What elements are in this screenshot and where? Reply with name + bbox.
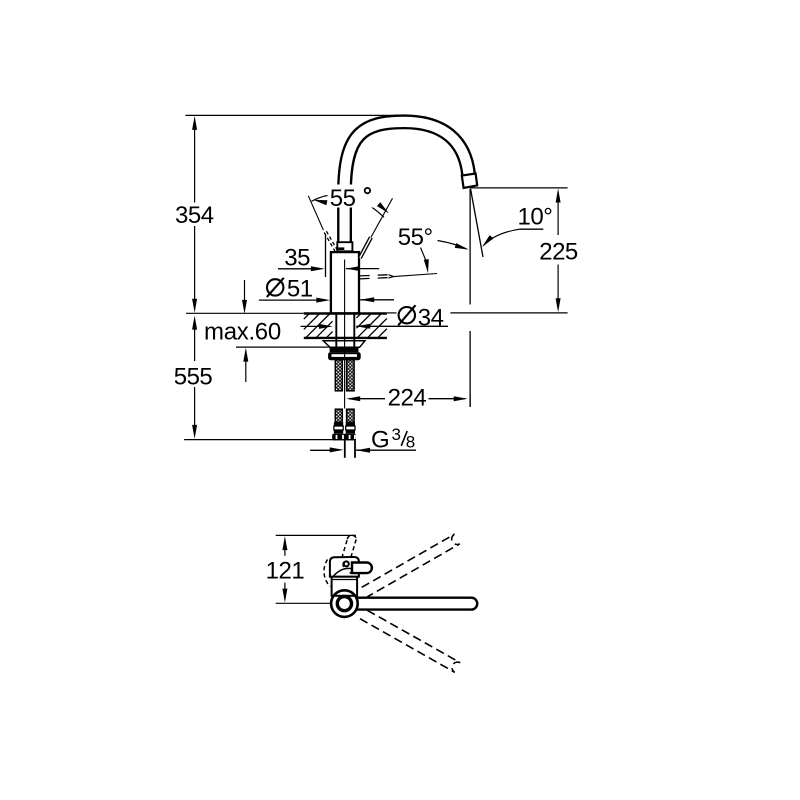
555 bottom reference line [184, 439, 356, 441]
threaded shank through countertop [336, 314, 354, 349]
spout tube [345, 122, 469, 252]
55 degree arc (lever swing upper) [312, 194, 390, 217]
dimension diameter 34 [301, 304, 448, 331]
225 top reference line [470, 187, 567, 189]
lever handle alternate left position (dashed) [324, 231, 337, 251]
svg-text:max.60: max.60 [204, 319, 281, 346]
threaded studs segment A [335, 360, 354, 391]
svg-text:3: 3 [392, 425, 401, 444]
svg-text:354: 354 [175, 202, 214, 229]
countertop reference line right segment [450, 312, 567, 314]
lever alternate position up (dashed) [342, 535, 357, 558]
countertop reference line middle segment [387, 312, 397, 314]
svg-text:224: 224 [388, 385, 427, 412]
label 55 degrees (upper) [328, 185, 375, 213]
spout swivel position upper (dashed) [360, 534, 460, 598]
top view: 121 bottom reference line [276, 602, 331, 604]
dimension 225 [539, 189, 578, 313]
top view: 121 top reference line [276, 534, 356, 536]
spout swivel position lower (dashed) [360, 609, 460, 672]
outlet axis vertical line lower [469, 331, 471, 407]
lever cap (top view) [330, 557, 359, 577]
extension line (lever front plane) [325, 236, 327, 278]
spout outlet aerator [462, 174, 477, 188]
spout (top view, solid) [352, 598, 477, 610]
svg-text:555: 555 [174, 363, 213, 390]
countertop reference line left segment [186, 312, 304, 314]
faucet body [331, 252, 359, 313]
svg-text:121: 121 [266, 557, 305, 584]
svg-text:34: 34 [418, 304, 444, 331]
svg-text:51: 51 [287, 275, 313, 302]
swivel ring inner [337, 597, 351, 611]
svg-text:55°: 55° [398, 224, 433, 251]
10 degree tilted line [471, 189, 484, 257]
svg-text:225: 225 [539, 238, 578, 265]
hose nut [332, 434, 356, 441]
lever (top view, solid) [352, 563, 372, 574]
svg-text:10°: 10° [518, 203, 553, 230]
swivel ring outer [331, 590, 358, 617]
gasket [330, 348, 359, 352]
dimension 555 [174, 316, 213, 439]
threaded studs segment B [335, 409, 354, 422]
lever handle lowest position (dashed) [360, 274, 437, 279]
svg-text:35: 35 [284, 244, 310, 271]
lever pivot [343, 561, 349, 567]
label 55 degrees (lower) [398, 224, 469, 273]
G3/8 tube [345, 440, 355, 457]
cartridge housing (top view) [332, 577, 358, 596]
mounting washer [323, 341, 365, 348]
outlet axis vertical line upper [469, 189, 471, 305]
svg-text:55: 55 [330, 185, 356, 212]
lever swing arc (dashed) [324, 560, 330, 587]
lever axis extension line [371, 198, 393, 237]
faucet centerline [344, 260, 346, 409]
lever handle (solid position) [360, 237, 371, 258]
dimension max.60 [204, 280, 330, 382]
dimension diameter 51 [259, 275, 394, 302]
countertop slab [304, 314, 387, 338]
svg-text:G: G [371, 426, 390, 453]
dimension G3/8 [310, 425, 416, 453]
collar [337, 242, 352, 251]
alternate lever axis extension [308, 196, 323, 230]
mounting nut [328, 352, 361, 360]
dimension 35 [278, 244, 379, 271]
dimension 224 [346, 385, 470, 412]
dimension 121 [266, 536, 305, 603]
dimension 354 [175, 116, 214, 313]
top reference line (spout top) [185, 114, 404, 116]
label 10 degrees [482, 203, 552, 247]
svg-text:8: 8 [406, 433, 415, 452]
hose end fittings [334, 422, 355, 433]
